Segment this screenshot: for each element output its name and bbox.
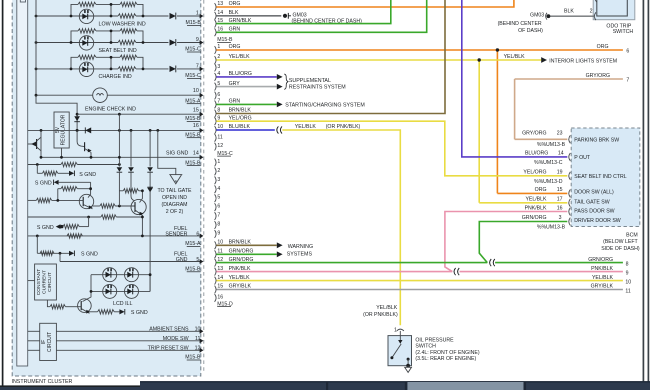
svg-text:BCM: BCM	[626, 233, 638, 239]
svg-text:BLK: BLK	[564, 8, 574, 14]
svg-text:16: 16	[217, 294, 223, 300]
svg-text:6: 6	[217, 204, 220, 210]
svg-text:STARTING/CHARGING SYSTEM: STARTING/CHARGING SYSTEM	[285, 103, 365, 109]
svg-text:OPEN IND: OPEN IND	[162, 195, 187, 201]
svg-text:S GND: S GND	[35, 181, 52, 187]
svg-text:12: 12	[195, 346, 201, 352]
svg-text:GM03: GM03	[530, 12, 544, 18]
svg-text:SENDER: SENDER	[165, 232, 187, 238]
svg-text:19: 19	[557, 170, 563, 176]
svg-text:1: 1	[196, 10, 199, 16]
svg-text:(DIAGRAM: (DIAGRAM	[162, 202, 188, 208]
svg-text:4: 4	[217, 186, 220, 192]
svg-text:3: 3	[217, 177, 220, 183]
svg-text:SWITCH: SWITCH	[415, 344, 436, 350]
svg-text:10: 10	[193, 88, 199, 94]
svg-text:OF DASH): OF DASH)	[518, 28, 543, 34]
svg-text:P OUT: P OUT	[574, 155, 591, 161]
svg-text:GRY/ORG: GRY/ORG	[586, 73, 610, 79]
svg-text:ENGINE CHECK IND: ENGINE CHECK IND	[85, 106, 136, 112]
svg-text:3: 3	[217, 64, 220, 70]
svg-text:GRY/ORG: GRY/ORG	[522, 131, 546, 137]
svg-text:DRIVER DOOR SW: DRIVER DOOR SW	[574, 218, 621, 224]
svg-text:CHARGE IND: CHARGE IND	[99, 74, 132, 80]
svg-text:5: 5	[196, 257, 199, 263]
svg-text:AMBIENT SENS: AMBIENT SENS	[149, 326, 189, 332]
svg-text:GM03: GM03	[293, 12, 307, 18]
svg-text:SWITCH: SWITCH	[613, 29, 634, 35]
svg-text:7: 7	[217, 213, 220, 219]
svg-text:YEL/BLK: YEL/BLK	[504, 54, 526, 60]
svg-text:S GND: S GND	[79, 172, 96, 178]
svg-text:10: 10	[195, 327, 201, 333]
svg-text:REGULATOR: REGULATOR	[60, 114, 66, 145]
svg-text:(OR PNK/BLK): (OR PNK/BLK)	[363, 312, 398, 318]
svg-text:TAIL GATE SW: TAIL GATE SW	[574, 199, 609, 205]
svg-text:WARNING: WARNING	[288, 244, 313, 250]
svg-text:%%UM13-B: %%UM13-B	[537, 224, 566, 230]
svg-text:10: 10	[625, 280, 631, 286]
svg-text:(3.5L: REAR OF ENGINE): (3.5L: REAR OF ENGINE)	[415, 356, 476, 362]
svg-text:1: 1	[217, 159, 220, 165]
svg-text:OIL PRESSURE: OIL PRESSURE	[415, 337, 454, 343]
svg-text:SYSTEMS: SYSTEMS	[287, 252, 313, 258]
svg-text:S GND: S GND	[81, 252, 98, 258]
svg-text:%%UM13-B: %%UM13-B	[537, 142, 566, 148]
svg-text:SUPPLEMENTAL: SUPPLEMENTAL	[289, 78, 331, 84]
svg-text:15: 15	[193, 108, 199, 114]
svg-text:9: 9	[196, 37, 199, 43]
svg-text:12: 12	[217, 143, 223, 149]
svg-text:11: 11	[625, 289, 630, 295]
svg-text:7: 7	[196, 63, 199, 69]
svg-text:LCD ILL: LCD ILL	[113, 301, 132, 307]
svg-text:SIDE OF DASH): SIDE OF DASH)	[601, 246, 640, 252]
svg-text:S GND: S GND	[37, 225, 54, 231]
svg-text:9: 9	[217, 230, 220, 236]
svg-text:16: 16	[557, 206, 563, 212]
svg-text:RESTRAINTS SYSTEM: RESTRAINTS SYSTEM	[289, 85, 346, 91]
svg-text:6: 6	[196, 231, 199, 237]
svg-text:ORG: ORG	[597, 44, 609, 50]
svg-text:INSTRUMENT CLUSTER: INSTRUMENT CLUSTER	[12, 379, 73, 385]
svg-text:14: 14	[558, 150, 564, 156]
svg-text:SIG GND: SIG GND	[166, 151, 189, 157]
svg-text:5: 5	[217, 195, 220, 201]
svg-text:11: 11	[217, 134, 222, 140]
svg-text:PASS DOOR SW: PASS DOOR SW	[574, 209, 614, 215]
svg-text:SEAT BELT IND: SEAT BELT IND	[99, 48, 137, 54]
svg-text:PNK/BLK: PNK/BLK	[591, 266, 613, 272]
svg-text:SEAT BELT IND CTRL: SEAT BELT IND CTRL	[574, 174, 626, 180]
svg-text:(BEHIND CENTER: (BEHIND CENTER	[498, 21, 542, 27]
svg-text:(BELOW LEFT: (BELOW LEFT	[603, 239, 638, 245]
svg-text:15: 15	[557, 187, 563, 193]
svg-text:6: 6	[626, 48, 629, 54]
svg-text:INTERIOR LIGHTS SYSTEM: INTERIOR LIGHTS SYSTEM	[549, 59, 617, 65]
svg-text:YEL/BLK: YEL/BLK	[295, 124, 317, 130]
svg-text:YEL/ORG: YEL/ORG	[523, 170, 546, 176]
svg-text:9: 9	[626, 271, 629, 277]
svg-text:11: 11	[195, 336, 201, 342]
svg-text:14: 14	[193, 151, 199, 157]
svg-text:CONSTANT: CONSTANT	[36, 269, 42, 296]
svg-text:PARKING BRK SW: PARKING BRK SW	[574, 138, 619, 144]
svg-text:GRN/ORG: GRN/ORG	[588, 257, 613, 263]
svg-text:2: 2	[217, 168, 220, 174]
svg-text:8: 8	[217, 222, 220, 228]
svg-text:16: 16	[193, 123, 199, 129]
svg-text:GND: GND	[176, 257, 188, 263]
svg-text:PNK/BLK: PNK/BLK	[525, 206, 547, 212]
svg-text:S GND: S GND	[131, 310, 148, 316]
svg-text:BLU/ORG: BLU/ORG	[525, 150, 548, 156]
svg-text:TO TAIL GATE: TO TAIL GATE	[157, 188, 192, 194]
svg-text:%%UM13-D: %%UM13-D	[534, 179, 563, 185]
svg-text:GRY/BLK: GRY/BLK	[591, 284, 614, 290]
svg-text:(OR PNK/BLK): (OR PNK/BLK)	[326, 124, 361, 130]
svg-text:2: 2	[590, 8, 593, 14]
svg-text:3: 3	[559, 215, 562, 221]
svg-text:MODE SW: MODE SW	[163, 336, 189, 342]
svg-text:%%UM13-C: %%UM13-C	[534, 160, 563, 166]
svg-text:LOW WASHER IND: LOW WASHER IND	[99, 21, 146, 27]
svg-text:8: 8	[626, 262, 629, 268]
svg-text:7: 7	[626, 77, 629, 83]
svg-text:YEL/BLK: YEL/BLK	[525, 197, 547, 203]
svg-text:(2.4L: FRONT OF ENGINE): (2.4L: FRONT OF ENGINE)	[415, 350, 479, 356]
svg-text:23: 23	[557, 131, 563, 137]
svg-text:TRIP RESET SW: TRIP RESET SW	[148, 345, 189, 351]
svg-text:YEL/BLK: YEL/BLK	[376, 305, 398, 311]
svg-text:2 OF 2): 2 OF 2)	[166, 209, 184, 215]
svg-text:1: 1	[394, 327, 397, 333]
svg-text:ORG: ORG	[535, 187, 547, 193]
svg-text:YEL/BLK: YEL/BLK	[592, 275, 614, 281]
svg-text:CURRENT: CURRENT	[42, 270, 48, 294]
svg-text:6: 6	[217, 92, 220, 98]
svg-text:CIRCUIT: CIRCUIT	[47, 272, 53, 292]
svg-text:DOOR SW (ALL): DOOR SW (ALL)	[574, 190, 614, 196]
svg-text:17: 17	[557, 197, 563, 203]
svg-text:CIRCUIT: CIRCUIT	[47, 332, 53, 352]
svg-text:GRN/ORG: GRN/ORG	[522, 215, 547, 221]
